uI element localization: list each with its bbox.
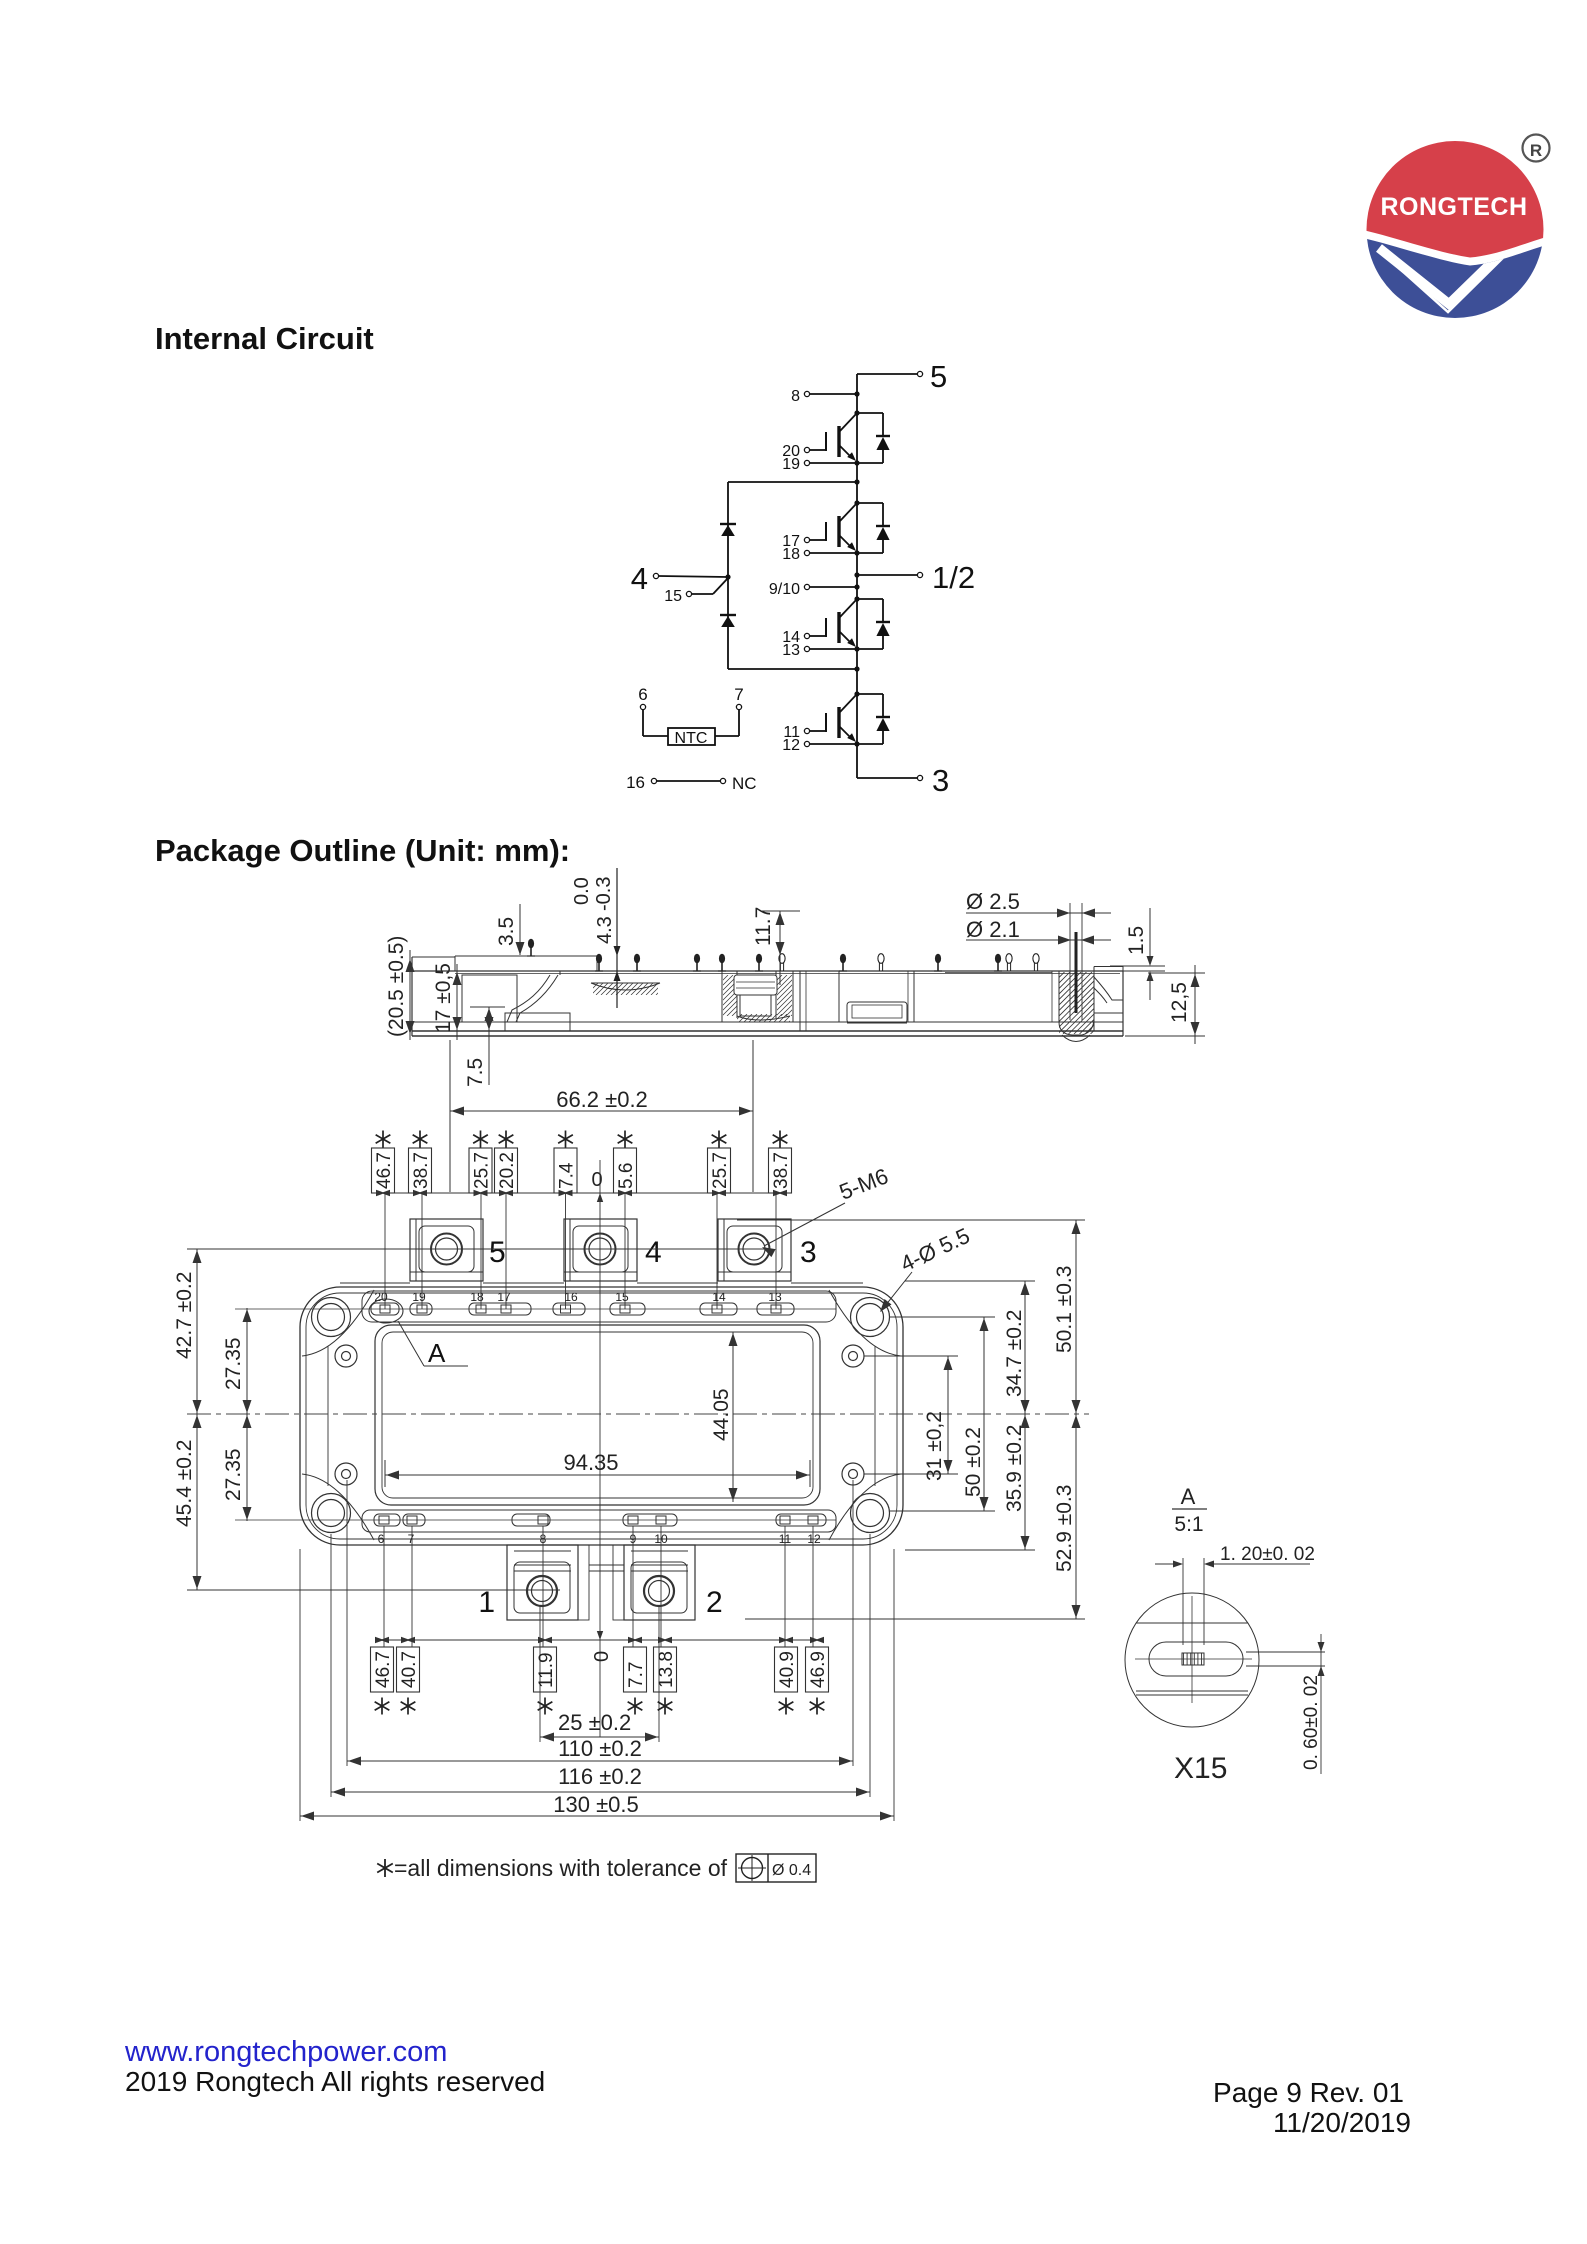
svg-text:5.6: 5.6	[616, 1163, 637, 1189]
svg-text:13: 13	[768, 1290, 782, 1304]
svg-text:4: 4	[645, 1236, 662, 1269]
svg-text:0.0: 0.0	[571, 877, 593, 905]
svg-text:34.7 ±0.2: 34.7 ±0.2	[1003, 1310, 1026, 1397]
svg-text:116 ±0.2: 116 ±0.2	[558, 1764, 642, 1789]
svg-text:17: 17	[497, 1290, 511, 1304]
svg-text:Page 9 Rev. 01: Page 9 Rev. 01	[1213, 2077, 1404, 2108]
svg-text:NTC: NTC	[675, 730, 708, 747]
svg-text:Ø 2.5: Ø 2.5	[966, 889, 1020, 914]
svg-text:27.35: 27.35	[222, 1448, 245, 1501]
svg-text:R: R	[1530, 141, 1542, 160]
svg-text:0: 0	[591, 1651, 613, 1662]
svg-text:40.9: 40.9	[777, 1651, 798, 1688]
svg-text:3.5: 3.5	[495, 917, 518, 946]
svg-text:0: 0	[591, 1169, 602, 1191]
svg-text:1/2: 1/2	[932, 560, 975, 595]
svg-text:19: 19	[412, 1290, 426, 1304]
svg-text:16: 16	[626, 773, 645, 792]
svg-text:2: 2	[706, 1586, 723, 1619]
svg-text:20.2: 20.2	[497, 1152, 518, 1189]
svg-text:Ø 0.4: Ø 0.4	[772, 1862, 811, 1879]
svg-text:45.4 ±0.2: 45.4 ±0.2	[173, 1440, 196, 1527]
svg-text:Internal Circuit: Internal Circuit	[155, 321, 374, 356]
svg-text:1.5: 1.5	[1125, 926, 1148, 955]
svg-text:50.1 ±0.3: 50.1 ±0.3	[1053, 1266, 1076, 1353]
svg-text:12,5: 12,5	[1168, 982, 1191, 1023]
svg-text:25.7: 25.7	[710, 1152, 731, 1189]
svg-text:7: 7	[734, 685, 743, 704]
svg-text:46.9: 46.9	[808, 1651, 829, 1688]
svg-text:1. 20±0. 02: 1. 20±0. 02	[1220, 1544, 1315, 1565]
svg-text:13.8: 13.8	[656, 1651, 677, 1688]
svg-text:5: 5	[930, 359, 947, 394]
svg-text:110 ±0.2: 110 ±0.2	[558, 1736, 642, 1761]
svg-text:52.9 ±0.3: 52.9 ±0.3	[1053, 1485, 1076, 1572]
svg-text:35.9 ±0.2: 35.9 ±0.2	[1003, 1425, 1026, 1512]
svg-text:-0.3: -0.3	[593, 877, 615, 911]
svg-text:X15: X15	[1174, 1752, 1227, 1785]
svg-text:8: 8	[791, 388, 800, 405]
svg-text:94.35: 94.35	[563, 1450, 618, 1475]
svg-text:38.7: 38.7	[411, 1152, 432, 1189]
svg-text:15: 15	[664, 588, 682, 605]
svg-text:40.7: 40.7	[399, 1651, 420, 1688]
svg-text:25 ±0.2: 25 ±0.2	[558, 1710, 631, 1735]
svg-text:15: 15	[615, 1290, 629, 1304]
svg-text:46.7: 46.7	[373, 1651, 394, 1688]
svg-text:4-Ø 5.5: 4-Ø 5.5	[897, 1223, 974, 1277]
svg-text:14: 14	[712, 1290, 726, 1304]
svg-text:12: 12	[807, 1532, 821, 1546]
svg-text:RONGTECH: RONGTECH	[1380, 193, 1527, 221]
svg-text:11.9: 11.9	[536, 1652, 557, 1688]
svg-text:18: 18	[782, 546, 800, 563]
svg-text:5: 5	[489, 1236, 506, 1269]
svg-text:27.35: 27.35	[222, 1337, 245, 1390]
svg-text:www.rongtechpower.com: www.rongtechpower.com	[124, 2036, 447, 2068]
svg-text:17 ±0,5: 17 ±0,5	[432, 963, 455, 1033]
svg-text:11/20/2019: 11/20/2019	[1273, 2107, 1411, 2138]
svg-text:Package Outline (Unit: mm):: Package Outline (Unit: mm):	[155, 833, 570, 868]
svg-text:0. 60±0. 02: 0. 60±0. 02	[1301, 1675, 1322, 1770]
svg-text:11.7: 11.7	[752, 907, 775, 946]
svg-text:1: 1	[478, 1586, 495, 1619]
svg-text:A: A	[1181, 1484, 1196, 1509]
svg-text:38.7: 38.7	[771, 1152, 792, 1189]
svg-text:31 ±0,2: 31 ±0,2	[923, 1411, 946, 1481]
svg-text:7.7: 7.7	[626, 1662, 647, 1688]
svg-text:(20.5 ±0.5): (20.5 ±0.5)	[385, 936, 408, 1037]
svg-text:130 ±0.5: 130 ±0.5	[553, 1792, 638, 1817]
svg-text:4.3: 4.3	[594, 916, 616, 944]
svg-text:12: 12	[782, 737, 800, 754]
svg-text:19: 19	[782, 456, 800, 473]
svg-text:18: 18	[470, 1290, 484, 1304]
svg-text:13: 13	[782, 642, 800, 659]
svg-text:4: 4	[631, 561, 648, 596]
svg-text:42.7 ±0.2: 42.7 ±0.2	[173, 1272, 196, 1359]
svg-text:44.05: 44.05	[710, 1388, 733, 1441]
svg-text:3: 3	[800, 1236, 817, 1269]
svg-text:7.5: 7.5	[464, 1058, 487, 1087]
svg-text:5:1: 5:1	[1174, 1513, 1203, 1536]
svg-text:16: 16	[564, 1290, 578, 1304]
svg-text:3: 3	[932, 763, 949, 798]
svg-text:66.2 ±0.2: 66.2 ±0.2	[556, 1087, 648, 1112]
svg-text:25.7: 25.7	[472, 1152, 493, 1189]
svg-text:A: A	[428, 1338, 446, 1368]
svg-text:2019 Rongtech All rights reser: 2019 Rongtech All rights reserved	[125, 2066, 545, 2097]
svg-text:9/10: 9/10	[769, 581, 800, 598]
svg-text:7.4: 7.4	[557, 1162, 578, 1189]
svg-text:50 ±0.2: 50 ±0.2	[962, 1427, 985, 1497]
svg-text:7: 7	[408, 1532, 415, 1546]
svg-text:46.7: 46.7	[374, 1152, 395, 1189]
svg-text:5-M6: 5-M6	[836, 1163, 892, 1204]
svg-text:=all dimensions with tolerance: =all dimensions with tolerance of	[394, 1855, 728, 1881]
svg-text:NC: NC	[732, 774, 757, 793]
svg-text:6: 6	[638, 685, 647, 704]
svg-text:Ø 2.1: Ø 2.1	[966, 917, 1020, 942]
svg-text:20: 20	[374, 1290, 388, 1304]
